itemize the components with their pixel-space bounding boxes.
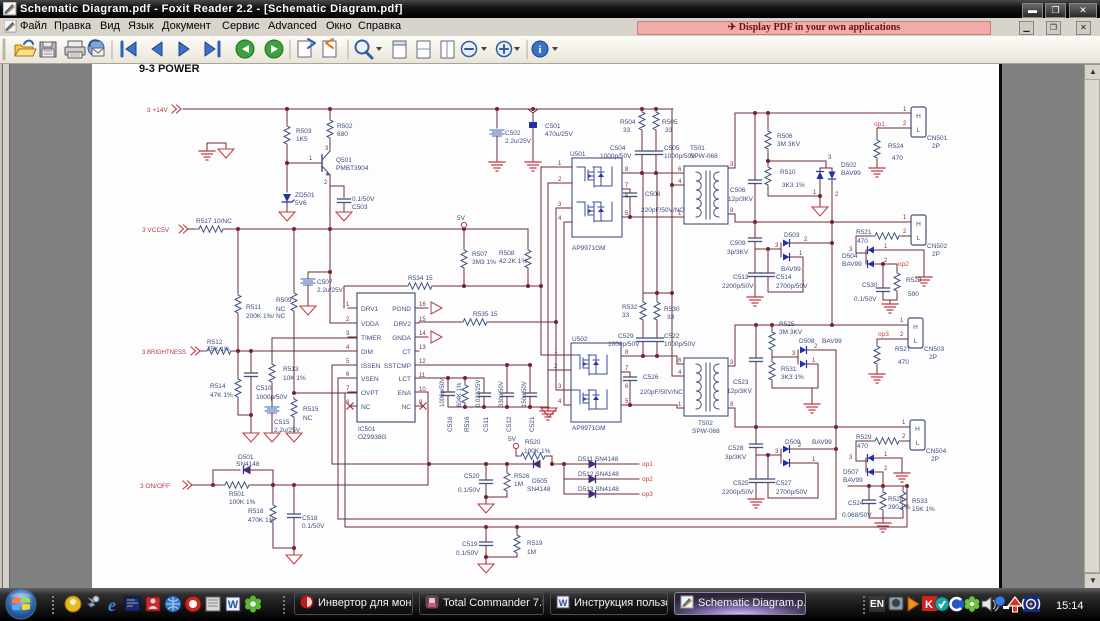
save floppy (40, 42, 56, 57)
svg-text:R532: R532 (622, 304, 638, 311)
svg-text:GNDA: GNDA (392, 335, 411, 342)
svg-text:W: W (559, 598, 568, 608)
wire T502 pin8 to CN504 line (728, 408, 910, 427)
svg-text:5V6: 5V6 (295, 200, 307, 207)
svg-text:2: 2 (900, 332, 904, 338)
svg-text:0.022/25V: 0.022/25V (476, 380, 482, 407)
svg-text:1000p/50V: 1000p/50V (608, 341, 640, 348)
svg-text:3: 3 (828, 155, 832, 161)
wire U501 source line (622, 216, 684, 218)
svg-text:U502: U502 (572, 336, 588, 343)
node dot base (285, 161, 289, 165)
svg-text:C521: C521 (529, 416, 536, 432)
svg-text:Q501: Q501 (336, 157, 352, 164)
svg-text:R530: R530 (664, 306, 680, 313)
wire DRV1 line (344, 286, 541, 308)
svg-text:R526: R526 (514, 473, 530, 480)
svg-text:4: 4 (558, 399, 562, 405)
mosfet U502 lower fet (572, 390, 607, 410)
svg-text:NC: NC (276, 306, 286, 313)
capacitor C510 (245, 351, 289, 433)
svg-text:C523: C523 (733, 379, 749, 386)
capacitor C522 (651, 333, 697, 356)
svg-text:1: 1 (812, 358, 816, 364)
svg-text:ENA: ENA (398, 390, 412, 397)
svg-text:4: 4 (678, 179, 682, 185)
connector CN502 (903, 215, 948, 258)
svg-text:2: 2 (346, 317, 350, 323)
svg-text:330p/50V: 330p/50V (499, 381, 505, 407)
wire +14V to T502 pin4 (672, 375, 684, 377)
PGND output triangle (431, 302, 442, 314)
svg-text:R513: R513 (283, 366, 299, 373)
wire Q501 emitter to rail (330, 186, 344, 229)
next (179, 42, 189, 56)
wire T501 pin3 to top (728, 113, 911, 168)
resistor R518 (248, 503, 294, 548)
svg-text:ISSEN: ISSEN (361, 363, 381, 370)
svg-text:C527: C527 (776, 480, 792, 487)
svg-text:12: 12 (419, 359, 426, 365)
svg-text:220pF/50V/NC: 220pF/50V/NC (640, 389, 683, 396)
svg-text:C515: C515 (274, 419, 290, 426)
svg-text:3 VCC5V: 3 VCC5V (142, 227, 170, 234)
ground under C513 (747, 297, 763, 306)
svg-text:DRV2: DRV2 (394, 321, 412, 328)
T501 pin numbers (678, 162, 734, 217)
svg-text:op2: op2 (642, 476, 653, 483)
wire VDDA (330, 322, 357, 324)
svg-text:470K 1%: 470K 1% (248, 517, 275, 524)
sep (111, 40, 113, 59)
wire OVPT loop line B (345, 393, 907, 527)
U502 pin numbers (554, 349, 629, 405)
svg-text:R529: R529 (856, 434, 872, 441)
svg-text:R524: R524 (888, 143, 904, 150)
svg-text:C508: C508 (645, 191, 661, 198)
svg-text:2P: 2P (932, 143, 940, 150)
transformer T501 (684, 145, 728, 224)
resistor R528 (880, 486, 910, 518)
svg-text:3: 3 (849, 455, 853, 461)
wire ISSEN line (332, 365, 564, 464)
svg-text:C509: C509 (730, 240, 746, 247)
svg-text:C519: C519 (462, 541, 478, 548)
svg-text:8: 8 (730, 208, 734, 214)
svg-text:R512: R512 (207, 339, 223, 346)
svg-text:7: 7 (625, 366, 629, 372)
svg-text:C516: C516 (447, 416, 454, 432)
svg-text:3p/3KV: 3p/3KV (727, 249, 749, 256)
taskbar (0, 588, 1100, 621)
wire T502 pin3 to CN503 line (728, 325, 908, 366)
ground under D502 (812, 207, 828, 216)
resistor R519 (484, 527, 543, 559)
resistor R525 (769, 321, 803, 357)
svg-text:1: 1 (884, 452, 888, 458)
capacitor C515 (265, 407, 301, 434)
svg-text:3 BRIGHTNESS: 3 BRIGHTNESS (142, 350, 186, 356)
resistor R521 (856, 229, 911, 253)
resistor R515 (291, 397, 319, 433)
capacitor C526 (622, 372, 683, 407)
EN (869, 596, 885, 612)
svg-text:2700p/50V: 2700p/50V (776, 489, 808, 496)
svg-text:R517 10/NC: R517 10/NC (196, 218, 232, 225)
svg-text:5V: 5V (457, 215, 466, 222)
ground stub U502 (540, 411, 556, 420)
svg-text:BAV99: BAV99 (781, 266, 801, 273)
svg-text:R504: R504 (620, 119, 636, 126)
svg-text:16: 16 (419, 302, 426, 308)
capacitor C518 (288, 485, 326, 555)
wire VSEN loop line A (338, 378, 836, 519)
resistor R501 (192, 482, 256, 506)
resistor R531 (769, 357, 818, 388)
svg-text:604K 1%: 604K 1% (457, 382, 463, 407)
capacitor C523 (727, 325, 763, 427)
resistor R506 (765, 113, 801, 161)
svg-text:2: 2 (903, 121, 907, 127)
svg-text:1: 1 (812, 457, 816, 463)
tray icons (889, 596, 1040, 612)
IC501 left pin names (361, 306, 382, 411)
resistor R509 (276, 229, 297, 393)
svg-text:PGND: PGND (392, 306, 411, 313)
diode D505 (527, 461, 551, 494)
ground under C530 R523 (882, 304, 898, 313)
svg-text:OZ9938G: OZ9938G (358, 434, 387, 441)
wire TIMER (272, 338, 357, 362)
svg-text:K: K (925, 599, 933, 611)
wire gate bus 4 (563, 222, 565, 405)
svg-text:R511: R511 (246, 304, 261, 311)
svg-text:1: 1 (678, 402, 682, 408)
svg-text:R518: R518 (248, 508, 264, 515)
diode D501 (213, 454, 273, 503)
svg-text:IC501: IC501 (358, 426, 376, 433)
svg-text:2.2u/25V: 2.2u/25V (505, 138, 532, 145)
capacitor C525 (722, 455, 763, 498)
resistor R505 (653, 109, 678, 151)
svg-text:100K 1%: 100K 1% (229, 499, 256, 506)
svg-text:3 ON/OFF: 3 ON/OFF (140, 483, 170, 490)
svg-text:PMBT3904: PMBT3904 (336, 165, 369, 172)
svg-text:SSTCMP: SSTCMP (384, 363, 411, 370)
resistor R511 (235, 229, 286, 350)
svg-text:1K5: 1K5 (296, 136, 308, 143)
svg-text:2P: 2P (931, 456, 939, 463)
node dot chain 243 (830, 241, 834, 245)
svg-text:R514: R514 (210, 383, 226, 390)
capacitor C513 (722, 249, 762, 296)
wire U502 source line (622, 405, 684, 408)
svg-text:1M: 1M (527, 549, 536, 556)
svg-text:1: 1 (884, 244, 888, 250)
capacitor C514 (762, 249, 809, 292)
svg-text:C525: C525 (733, 480, 749, 487)
svg-text:R501: R501 (229, 491, 245, 498)
wire OVPT (292, 391, 357, 395)
resistor R504 (620, 109, 645, 151)
capacitor C509 (727, 222, 762, 256)
capacitor C519 (456, 527, 493, 563)
svg-text:7: 7 (625, 183, 629, 189)
wire D508 pin2 vertical (835, 350, 837, 519)
svg-text:470: 470 (892, 155, 903, 162)
svg-text:100K 1%: 100K 1% (524, 448, 551, 455)
svg-text:680: 680 (337, 131, 348, 138)
node dots VCC5V rail (236, 227, 466, 231)
wire U501 pin stubs left (541, 167, 572, 222)
ground under R527 (869, 374, 885, 383)
svg-text:15K 1%: 15K 1% (912, 506, 935, 513)
svg-text:AP9971GM: AP9971GM (572, 245, 606, 252)
svg-text:BAV99: BAV99 (841, 170, 861, 177)
resistor R530 (654, 293, 680, 337)
svg-text:2P: 2P (932, 251, 940, 258)
wire gate bus 3 (555, 208, 557, 390)
svg-text:1: 1 (558, 161, 562, 167)
T502 pin numbers (678, 358, 734, 408)
mosfet U502 upper fet (572, 355, 607, 375)
svg-text:SPW-068: SPW-068 (692, 428, 720, 435)
svg-text:T501: T501 (690, 145, 705, 152)
svg-text:3K3 1%: 3K3 1% (782, 182, 805, 189)
svg-text:LCT: LCT (399, 376, 411, 383)
ground under C503 (336, 212, 352, 221)
svg-text:C522: C522 (664, 333, 680, 340)
resistor R533 (900, 486, 935, 518)
svg-text:T502: T502 (698, 420, 713, 427)
svg-text:C502: C502 (505, 130, 521, 137)
svg-text:R534 15: R534 15 (408, 275, 433, 282)
svg-text:C504: C504 (610, 145, 626, 152)
diode D511 (564, 456, 639, 468)
ground under C507 (300, 306, 316, 315)
svg-text:0.1/50V: 0.1/50V (458, 487, 481, 494)
svg-text:1: 1 (903, 107, 907, 113)
svg-text:1: 1 (309, 156, 313, 162)
ground pair top-left (199, 143, 234, 160)
svg-text:C518: C518 (302, 515, 318, 522)
transformer T502 (684, 358, 728, 435)
resistor R527 (874, 339, 911, 373)
svg-text:0.1/50V: 0.1/50V (854, 296, 877, 303)
svg-text:0.1/50V: 0.1/50V (302, 523, 325, 530)
svg-text:42.2K 1%: 42.2K 1% (499, 258, 527, 265)
svg-text:3: 3 (792, 351, 796, 357)
svg-text:R520: R520 (525, 439, 541, 446)
svg-text:NC: NC (361, 404, 371, 411)
svg-text:OVPT: OVPT (361, 390, 379, 397)
resistor R524 (874, 128, 911, 167)
svg-text:D511 SN4148: D511 SN4148 (578, 456, 619, 463)
ground under D508 (804, 388, 820, 413)
svg-text:R508: R508 (499, 250, 515, 257)
svg-text:ZD501: ZD501 (295, 192, 315, 199)
sep (289, 40, 291, 59)
capacitor C527 (762, 455, 819, 498)
svg-text:2700p/50V: 2700p/50V (776, 283, 808, 290)
IC501 left pin numbers (346, 302, 350, 406)
ground D504 pin1 (916, 250, 932, 286)
svg-text:AP9971GM: AP9971GM (572, 425, 606, 432)
svg-text:1: 1 (799, 251, 803, 257)
prev (152, 42, 162, 56)
ground D507 pin1 (894, 458, 910, 482)
ground under R515 (286, 433, 302, 442)
svg-text:BAV99: BAV99 (822, 338, 842, 345)
svg-text:4: 4 (678, 370, 682, 376)
capacitor C512 (499, 365, 514, 432)
svg-text:R523: R523 (906, 277, 922, 284)
wire LCT line (419, 376, 484, 380)
svg-text:D507: D507 (843, 469, 859, 476)
svg-text:15: 15 (419, 317, 426, 323)
diode D513 (564, 486, 639, 498)
GNDA output triangle (431, 331, 442, 343)
capacitor C508 (622, 189, 684, 219)
wire U502 drain line (622, 354, 684, 364)
mosfet U501 upper fet (577, 167, 612, 187)
svg-text:NC: NC (402, 404, 412, 411)
svg-text:6: 6 (678, 167, 682, 173)
ground under C515 (264, 433, 280, 442)
NC cross pin9 (420, 403, 426, 409)
svg-text:2: 2 (903, 229, 907, 235)
svg-text:D512 SN4148: D512 SN4148 (578, 471, 619, 478)
svg-text:8: 8 (625, 167, 629, 173)
svg-text:470u/25V: 470u/25V (545, 131, 573, 138)
resistor R534 (405, 275, 435, 289)
svg-text:R533: R533 (912, 498, 928, 505)
svg-text:10K 1%: 10K 1% (283, 375, 306, 382)
svg-text:3: 3 (775, 243, 779, 249)
svg-text:7: 7 (346, 386, 350, 392)
wire DRV2 line (419, 321, 556, 323)
net +14V input (147, 105, 181, 114)
capacitor C503 (338, 186, 376, 212)
wire U502 pin stubs left (541, 355, 571, 405)
svg-text:CT: CT (402, 349, 411, 356)
resistor R517 (188, 218, 232, 232)
svg-text:590: 590 (908, 291, 919, 298)
svg-text:VSEN: VSEN (361, 376, 379, 383)
node dots secondary top (753, 111, 834, 224)
ground under R524 (869, 168, 885, 177)
node dots secondary bottom (754, 323, 838, 429)
resistor R507 (461, 229, 496, 286)
svg-text:12p/3KV: 12p/3KV (727, 388, 753, 395)
svg-text:C507: C507 (317, 279, 333, 286)
tray separator (863, 596, 865, 614)
svg-text:1: 1 (813, 190, 817, 196)
resistor R512 (200, 339, 234, 354)
svg-text:1: 1 (902, 420, 906, 426)
wire gate bus 1 (540, 167, 542, 355)
svg-text:R531: R531 (781, 366, 797, 373)
svg-text:SN4148: SN4148 (236, 461, 260, 468)
svg-text:C530: C530 (862, 282, 878, 289)
svg-text:390 1%: 390 1% (888, 504, 910, 511)
svg-text:3M 3KV: 3M 3KV (777, 141, 801, 148)
svg-text:2: 2 (835, 192, 839, 198)
zoom out (462, 42, 477, 57)
svg-text:13: 13 (419, 345, 426, 351)
connector CN503 (900, 318, 945, 361)
svg-text:D508: D508 (799, 338, 815, 345)
capacitor C520 (458, 464, 493, 503)
capacitor C521 (522, 365, 537, 432)
capacitor C524 (842, 486, 876, 519)
resistor R532 (622, 293, 646, 337)
ground under C520 (478, 504, 494, 513)
wire BRIGHTNESS to DIM (234, 350, 357, 352)
svg-text:150p/50V: 150p/50V (522, 381, 528, 407)
svg-text:C511: C511 (483, 417, 490, 432)
diode D503 (755, 232, 832, 292)
wire VCC5V rail (226, 228, 528, 230)
svg-text:op1: op1 (874, 121, 885, 128)
svg-text:R510: R510 (780, 169, 796, 176)
svg-text:0.1/50V: 0.1/50V (456, 550, 479, 557)
svg-text:C520: C520 (464, 473, 480, 480)
net VCC5V input (142, 225, 188, 234)
svg-text:8: 8 (730, 402, 734, 408)
NC cross pin8 (347, 403, 353, 409)
svg-text:DRV1: DRV1 (361, 306, 379, 313)
svg-text:op2: op2 (898, 261, 909, 268)
svg-text:1: 1 (554, 349, 558, 355)
nav first (121, 42, 124, 56)
snapshot tools (298, 41, 311, 57)
svg-text:2: 2 (324, 180, 328, 186)
svg-text:33: 33 (665, 127, 673, 134)
svg-text:W: W (228, 599, 239, 611)
QL icons (65, 595, 261, 615)
connector CN501 (903, 107, 948, 150)
svg-text:1: 1 (900, 318, 904, 324)
svg-text:R507: R507 (472, 251, 488, 258)
wire divider bottom (869, 518, 903, 522)
resistor R502 (327, 109, 353, 140)
svg-text:BAV99: BAV99 (842, 261, 862, 268)
wire R divider line (848, 484, 909, 488)
wire U501 drain line (622, 171, 684, 175)
capacitor C501 polarized (528, 109, 573, 162)
svg-text:4: 4 (346, 345, 350, 351)
resistor R508 (499, 229, 531, 286)
svg-text:2: 2 (554, 364, 558, 370)
svg-text:33: 33 (623, 127, 631, 134)
transistor Q501 (287, 140, 369, 186)
svg-text:C514: C514 (776, 274, 792, 281)
svg-text:8: 8 (625, 350, 629, 356)
svg-text:D501: D501 (238, 454, 254, 461)
wire ON/OFF line (252, 484, 428, 486)
resistor R516 (457, 378, 471, 432)
U501 pin numbers (558, 161, 629, 222)
svg-text:op3: op3 (878, 331, 889, 338)
wire ENA to ON/OFF (419, 392, 428, 485)
svg-text:R503: R503 (296, 128, 312, 135)
zener ZD501 (282, 185, 315, 212)
ground under C502 (489, 162, 505, 171)
svg-text:R527: R527 (895, 346, 911, 353)
capacitor C502 (490, 109, 532, 162)
sep (347, 40, 349, 59)
